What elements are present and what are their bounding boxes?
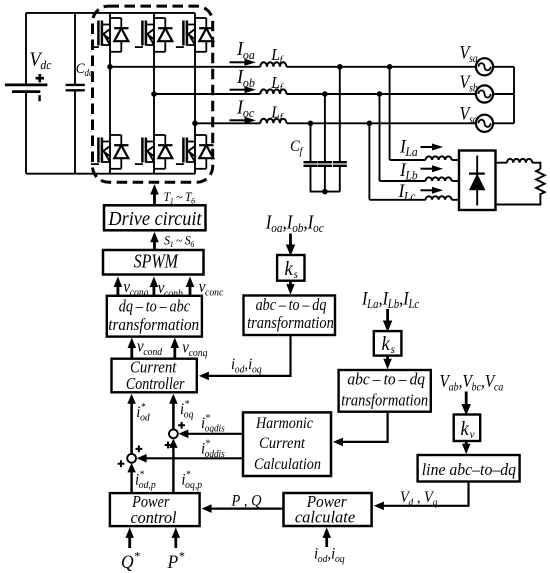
block Drive circuit [104, 205, 206, 230]
source Vsa [476, 58, 493, 75]
label + polarity [36, 74, 44, 82]
arrow ILabc into ks [386, 309, 389, 322]
svg-text:Calculation: Calculation [254, 456, 321, 473]
inductor Lf phase c [260, 119, 286, 124]
node phase b tap [151, 91, 157, 97]
wire Cf branch c lower [310, 166, 312, 192]
wire load top right [532, 163, 540, 169]
arrow ks to abc-to-dq [289, 281, 292, 285]
label Iob with arrow [230, 67, 257, 94]
node Cf tap phase b [322, 91, 328, 97]
node Cf neutral junction [322, 189, 328, 195]
svg-text:P ,Q: P ,Q [231, 492, 262, 510]
wire leg a lower trunk [109, 67, 111, 174]
inductor Lf phase a [260, 62, 286, 67]
wire Cdc lower [74, 90, 76, 173]
block dq-to-abc transformation [107, 296, 202, 337]
block Current Controller [112, 359, 197, 393]
svg-text:control: control [130, 508, 176, 527]
wire phase a to source [287, 66, 477, 68]
block ks output current [277, 255, 304, 281]
wire phase c to source [287, 122, 477, 124]
arrow sum2 to Current Controller ioq* [172, 403, 175, 430]
resistor load [536, 169, 545, 194]
capacitor Cf phase a [333, 162, 347, 166]
source Vsc [476, 115, 493, 132]
wire abc-to-dq load to Harmonic [341, 412, 388, 442]
label ILa with arrow [399, 136, 443, 159]
summing junction 1 [127, 454, 136, 463]
block Power control [110, 493, 200, 526]
arrow vcona [117, 286, 120, 297]
inductor load line b [426, 177, 452, 181]
block Harmonic Current Calculation [243, 412, 331, 476]
svg-text:line abc–to–dq: line abc–to–dq [422, 460, 517, 479]
block abc-to-dq transformation output [244, 296, 336, 336]
rectifier box [459, 151, 496, 211]
svg-text:Vd ,Vq: Vd ,Vq [400, 488, 437, 508]
label plus sum2 top [178, 422, 185, 429]
wire Cf branch b lower [324, 166, 326, 192]
transistor Q3 [176, 21, 195, 48]
wire load branch c horizontal [369, 199, 425, 201]
svg-text:calculate: calculate [295, 508, 356, 527]
wire load branch b into rectifier [452, 180, 459, 182]
arrow power control to sum1 [130, 471, 132, 493]
arrow vconq [173, 347, 176, 359]
wire phase b line [154, 93, 260, 95]
transistor Q2 [135, 21, 154, 48]
svg-text:T1~T6: T1~T6 [164, 189, 196, 205]
arrow Pref [174, 537, 177, 548]
block SPWM [103, 250, 204, 275]
wire load branch b horizontal [380, 180, 426, 182]
svg-text:S1~S6: S1~S6 [164, 233, 195, 249]
svg-text:Current: Current [259, 435, 306, 452]
arrow into Harmonic box [333, 438, 343, 447]
svg-text:Controller: Controller [126, 374, 185, 393]
wire source c to bus [493, 122, 514, 124]
svg-text:Harmonic: Harmonic [255, 415, 313, 432]
arrow iod ioq into Power calculate [325, 537, 328, 547]
arrow kv to line abc-to-dq [465, 441, 468, 445]
node phase c tap [192, 121, 198, 127]
wire Cf branch b upper [324, 94, 326, 162]
block Power calculate [284, 493, 372, 526]
wire load branch a horizontal [390, 159, 426, 161]
wire phase a line [110, 66, 260, 68]
wire Cf branch a upper [339, 67, 341, 162]
wire phase c line [195, 122, 260, 124]
wire leg c lower trunk [194, 123, 196, 173]
wire left DC leg upper [25, 13, 27, 85]
block line abc-to-dq [418, 455, 520, 482]
wire Cf branch a lower [339, 166, 341, 192]
node load tap phase a [387, 64, 393, 70]
source Vsb [476, 85, 493, 102]
wire load branch a vertical [389, 67, 391, 160]
wire Cdc upper [74, 13, 76, 85]
label - polarity tick [38, 95, 40, 101]
rectifier diode [469, 156, 485, 206]
label plus sum1 left [118, 460, 125, 467]
arrow vconb [152, 286, 155, 297]
block kv [454, 415, 481, 442]
svg-text:transformation: transformation [247, 313, 334, 332]
label plus sum1 top [136, 446, 143, 453]
capacitor Cf phase c [304, 162, 318, 166]
arrow vcond [130, 347, 133, 359]
svg-text:Drive circuit: Drive circuit [108, 208, 203, 230]
label Ioa with arrow [230, 39, 257, 66]
block ks load current [374, 331, 402, 356]
diode D3 antiparallel [195, 18, 214, 52]
inductor load line a [426, 156, 452, 160]
summing junction 2 [169, 429, 178, 438]
arrow S1-S6 SPWM to Drive circuit [153, 241, 156, 250]
wire bottom DC rail [26, 173, 195, 175]
wire source a to bus [493, 66, 514, 68]
wire leg b lower trunk [153, 94, 155, 174]
wire neutral bus [513, 67, 515, 124]
transistor Q5 [135, 138, 154, 165]
arrow Vabc into kv [465, 392, 468, 406]
wire load branch c vertical [368, 123, 370, 200]
wire leg c upper trunk [194, 13, 196, 123]
node phase a tap [107, 64, 113, 70]
wire load branch b vertical [379, 94, 381, 181]
diode D1 antiparallel [110, 18, 129, 52]
battery Vdc [5, 85, 48, 92]
wire Cf branch c upper [310, 123, 312, 162]
diode D2 antiparallel [154, 18, 173, 52]
transistor Q4 [91, 138, 110, 165]
transistor Q6 [176, 138, 195, 165]
node load tap phase c [367, 121, 373, 127]
arrow iod ioq into Current Controller [199, 372, 209, 381]
wire abc-to-dq to Current Controller [207, 335, 291, 376]
diode D6 antiparallel [195, 135, 214, 169]
svg-text:abc – to – dq: abc – to – dq [347, 369, 425, 388]
diode D4 antiparallel [110, 135, 129, 169]
wire Cf common bottom [310, 191, 340, 193]
arrow Qref [128, 537, 131, 548]
wire phase b to source [287, 93, 477, 95]
wire line abc-to-dq to Power calculate [380, 482, 469, 506]
label ILb with arrow [399, 159, 443, 182]
wire load branch c into rectifier [452, 199, 459, 201]
wire load top [496, 162, 508, 164]
svg-text:transformation: transformation [341, 391, 428, 410]
transistor Q1 [91, 21, 110, 48]
svg-text:dq – to – abc: dq – to – abc [119, 297, 191, 316]
wire load branch a into rectifier [452, 159, 459, 161]
arrow Vd Vq into Power calculate [374, 502, 384, 511]
node load tap phase b [377, 91, 383, 97]
inductor load line c [426, 196, 452, 200]
wire P,Q power calculate to power control [211, 508, 284, 510]
block abc-to-dq transformation load [339, 370, 431, 412]
label Ioc with arrow [230, 97, 257, 124]
arrow Ioabc into ks [289, 234, 292, 246]
capacitor Cf phase b [318, 162, 332, 166]
label plus sum2 left [165, 442, 172, 449]
wire harmonic to sum2 oqdis [187, 433, 243, 435]
diode D5 antiparallel [154, 135, 173, 169]
wire harmonic to sum1 oddis [146, 457, 243, 459]
svg-text:transformation: transformation [108, 315, 199, 334]
arrow power control to sum2 [172, 447, 174, 493]
capacitor Cdc [66, 85, 85, 90]
wire left DC leg lower [25, 92, 27, 174]
svg-text:abc – to – dq: abc – to – dq [256, 295, 327, 314]
inductor load output [507, 159, 532, 163]
wire leg b upper trunk [153, 13, 155, 94]
svg-text:SPWM: SPWM [134, 251, 179, 273]
inverter dashed enclosure [93, 6, 213, 182]
wire load bottom [496, 193, 541, 204]
wire source b to bus [493, 93, 514, 95]
arrow ks to abc-to-dq load [386, 356, 389, 360]
node Cf tap phase c [308, 121, 314, 127]
inductor Lf phase b [260, 89, 286, 94]
label ILc with arrow [398, 181, 443, 204]
arrow T1-T6 into inverter [153, 194, 156, 206]
wire leg a upper trunk [109, 13, 111, 67]
node Cf tap phase a [337, 64, 343, 70]
arrow sum1 to Current Controller iod* [130, 403, 133, 454]
wire top DC rail [26, 12, 195, 14]
arrow vconc [189, 286, 192, 297]
